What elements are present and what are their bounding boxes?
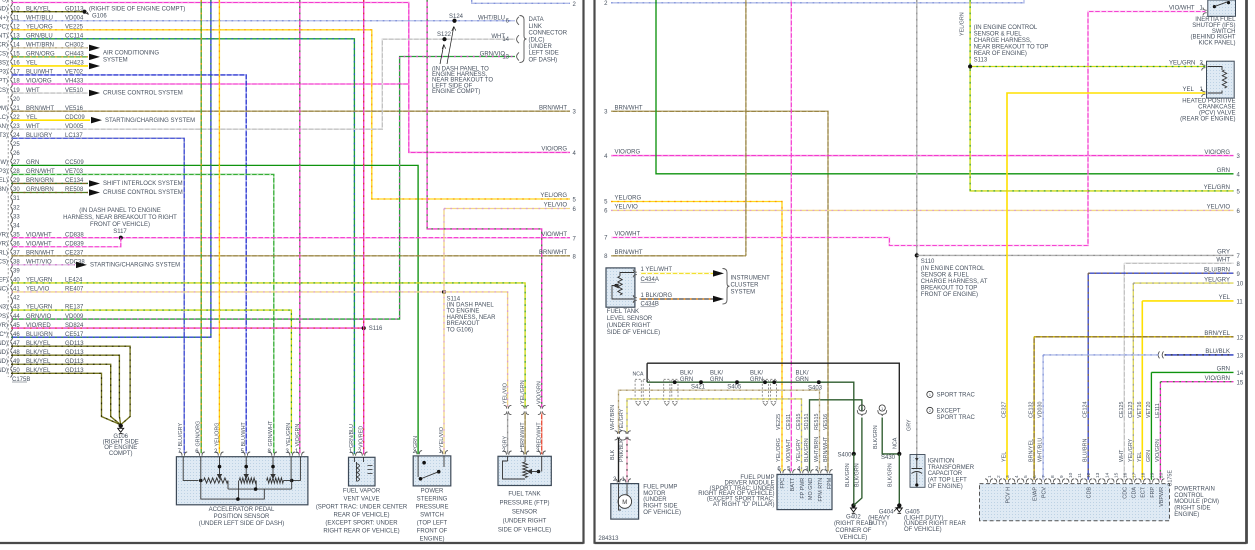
svg-text:(UNDER RIGHT: (UNDER RIGHT xyxy=(607,323,651,329)
svg-text:YEL/GRN: YEL/GRN xyxy=(960,12,966,36)
svg-text:SWITCH: SWITCH xyxy=(420,513,444,519)
svg-text:BLU/BRN: BLU/BRN xyxy=(1083,439,1089,462)
svg-text:SPORT TRAC: SPORT TRAC xyxy=(937,415,976,421)
svg-text:OF VEHICLE): OF VEHICLE) xyxy=(904,527,942,533)
svg-text:(AT TOP LEFT: (AT TOP LEFT xyxy=(928,478,967,484)
svg-text:15: 15 xyxy=(1237,380,1244,386)
svg-text:13: 13 xyxy=(1095,472,1101,478)
svg-text:YEL/GRY: YEL/GRY xyxy=(796,438,802,462)
svg-text:N+): N+) xyxy=(0,15,8,21)
svg-text:FS): FS) xyxy=(0,0,8,3)
svg-text:19: 19 xyxy=(1149,472,1155,478)
svg-text:13: 13 xyxy=(502,54,509,60)
svg-text:11: 11 xyxy=(1237,300,1244,306)
svg-text:ND): ND) xyxy=(0,359,8,365)
svg-text:CLUSTER: CLUSTER xyxy=(731,282,760,288)
svg-text:BATT: BATT xyxy=(790,477,796,491)
svg-text:FUEL VAPOR: FUEL VAPOR xyxy=(343,489,381,495)
svg-text:YEL/ORG: YEL/ORG xyxy=(776,438,782,462)
svg-text:C*): C*) xyxy=(0,332,8,338)
svg-text:VIO/ORG: VIO/ORG xyxy=(541,147,567,153)
svg-text:FRONT OF VEHICLE): FRONT OF VEHICLE) xyxy=(90,222,150,228)
svg-text:NCA: NCA xyxy=(893,437,899,449)
svg-text:GRN: GRN xyxy=(710,377,723,383)
svg-text:12: 12 xyxy=(1237,335,1244,341)
svg-text:MOTOR: MOTOR xyxy=(643,491,666,497)
svg-text:BLK/: BLK/ xyxy=(750,371,763,377)
svg-text:BLK/GRN: BLK/GRN xyxy=(855,463,861,487)
svg-text:1 YEL/WHT: 1 YEL/WHT xyxy=(641,267,673,273)
svg-text:BRN/WHT: BRN/WHT xyxy=(539,250,567,256)
svg-text:GRN: GRN xyxy=(750,377,763,383)
svg-text:VIO/GRN: VIO/GRN xyxy=(537,381,543,404)
svg-text:HARNESS, NEAR: HARNESS, NEAR xyxy=(447,315,497,321)
svg-text:DUTY): DUTY) xyxy=(869,521,887,527)
svg-text:S124: S124 xyxy=(449,14,464,20)
svg-text:YEL/GRN: YEL/GRN xyxy=(520,380,526,404)
svg-text:COMPT): COMPT) xyxy=(109,451,133,457)
svg-text:VR): VR) xyxy=(0,241,8,247)
svg-text:BRN/WHT: BRN/WHT xyxy=(615,105,643,111)
svg-text:CONNECTOR: CONNECTOR xyxy=(529,31,568,37)
svg-text:GRN: GRN xyxy=(1146,450,1152,462)
svg-text:AN): AN) xyxy=(0,124,8,130)
svg-text:YEL: YEL xyxy=(1182,87,1194,93)
svg-text:FRP: FRP xyxy=(1150,487,1156,498)
svg-text:YEL: YEL xyxy=(1219,295,1231,301)
svg-text:BLK/GRN: BLK/GRN xyxy=(873,425,879,449)
svg-text:CS): CS) xyxy=(0,52,8,58)
svg-text:AIR CONDITIONING: AIR CONDITIONING xyxy=(103,51,159,57)
svg-text:GRN: GRN xyxy=(1217,367,1230,373)
svg-text:VE516: VE516 xyxy=(823,414,829,430)
svg-text:EL): EL) xyxy=(0,178,8,184)
svg-text:YEL/VIO: YEL/VIO xyxy=(439,427,445,448)
svg-text:VIO/WHT: VIO/WHT xyxy=(786,438,792,462)
svg-text:P3): P3) xyxy=(0,169,8,175)
svg-text:SENSOR: SENSOR xyxy=(512,509,538,515)
svg-text:YEL: YEL xyxy=(1137,452,1143,462)
svg-text:TO G106): TO G106) xyxy=(447,327,474,333)
svg-text:26: 26 xyxy=(13,151,20,157)
svg-text:(UNDER: (UNDER xyxy=(643,497,667,503)
svg-text:ND): ND) xyxy=(0,6,8,12)
svg-text:SENSOR & FUEL: SENSOR & FUEL xyxy=(921,272,970,278)
svg-text:WHT/BLU: WHT/BLU xyxy=(478,16,505,22)
svg-text:LEFT SIDE: LEFT SIDE xyxy=(529,51,559,57)
svg-text:VR): VR) xyxy=(0,323,8,329)
svg-text:BREAKOUT TO TOP: BREAKOUT TO TOP xyxy=(921,286,977,292)
svg-text:1: 1 xyxy=(929,393,931,397)
svg-text:TO ENGINE: TO ENGINE xyxy=(447,309,480,315)
svg-text:CS): CS) xyxy=(0,260,8,266)
svg-text:13: 13 xyxy=(1237,354,1244,360)
svg-text:EVAP: EVAP xyxy=(1033,487,1039,501)
svg-text:CAPACITOR: CAPACITOR xyxy=(928,471,963,477)
svg-text:PRESSURE (FTP): PRESSURE (FTP) xyxy=(499,500,549,506)
svg-text:20: 20 xyxy=(13,97,20,103)
svg-text:4: 4 xyxy=(1014,475,1020,478)
svg-text:(IN DASH PANEL: (IN DASH PANEL xyxy=(447,303,495,309)
svg-text:VIO/GRN: VIO/GRN xyxy=(295,424,301,447)
svg-text:VBPWR: VBPWR xyxy=(1159,487,1165,507)
svg-text:CONTROL: CONTROL xyxy=(1174,493,1204,499)
svg-text:ECT: ECT xyxy=(1141,486,1147,497)
svg-text:WHT/BRN: WHT/BRN xyxy=(610,405,616,430)
svg-text:EF): EF) xyxy=(0,278,8,284)
svg-text:GRN/BLU: GRN/BLU xyxy=(349,424,355,448)
svg-text:CDC: CDC xyxy=(1123,487,1129,499)
svg-text:BRN/WHT: BRN/WHT xyxy=(539,105,567,111)
svg-text:BREAKOUT: BREAKOUT xyxy=(447,321,480,327)
svg-text:P3): P3) xyxy=(0,70,8,76)
svg-text:EXCEPT: EXCEPT xyxy=(937,408,961,414)
svg-text:S117: S117 xyxy=(113,229,127,235)
svg-text:31: 31 xyxy=(13,196,20,202)
svg-text:CDA: CDA xyxy=(1132,487,1138,499)
svg-text:ND): ND) xyxy=(0,368,8,374)
svg-text:YEL/ORG: YEL/ORG xyxy=(615,196,642,202)
svg-text:S116: S116 xyxy=(369,326,383,332)
svg-text:YEL/GRY: YEL/GRY xyxy=(1204,277,1230,283)
svg-text:BLK/GRN: BLK/GRN xyxy=(888,463,894,487)
svg-text:(DLC): (DLC) xyxy=(529,37,545,43)
svg-text:GW): GW) xyxy=(0,160,8,166)
svg-text:AT RIGHT “D” PILLAR): AT RIGHT “D” PILLAR) xyxy=(713,502,775,508)
svg-text:VR): VR) xyxy=(0,232,8,238)
svg-text:34: 34 xyxy=(13,223,20,229)
svg-text:GRY: GRY xyxy=(1217,250,1230,256)
svg-text:YEL/GRY: YEL/GRY xyxy=(619,408,625,432)
svg-text:VD030: VD030 xyxy=(1038,402,1044,418)
svg-text:PCV: PCV xyxy=(1042,487,1048,498)
svg-text:S430: S430 xyxy=(881,455,896,461)
svg-text:WHT: WHT xyxy=(1119,449,1125,462)
svg-text:18: 18 xyxy=(1140,472,1146,478)
svg-text:BLK/GRN: BLK/GRN xyxy=(804,438,810,462)
svg-text:FRONT OF ENGINE): FRONT OF ENGINE) xyxy=(921,292,978,298)
svg-text:ENGINE): ENGINE) xyxy=(419,537,444,543)
svg-text:1: 1 xyxy=(987,475,993,478)
svg-text:VIO/WHT: VIO/WHT xyxy=(1169,6,1195,12)
svg-text:VEHICLE): VEHICLE) xyxy=(840,535,868,541)
svg-text:HARNESS, NEAR BREAKOUT TO RIGH: HARNESS, NEAR BREAKOUT TO RIGHT xyxy=(63,215,177,221)
svg-text:CE327: CE327 xyxy=(1002,402,1008,418)
svg-text:YEL: YEL xyxy=(1002,452,1008,462)
svg-text:PRESSURE: PRESSURE xyxy=(415,505,448,511)
svg-text:SHIFT INTERLOCK SYSTEM: SHIFT INTERLOCK SYSTEM xyxy=(103,181,183,187)
svg-text:VET20: VET20 xyxy=(1146,402,1152,418)
svg-text:BLK/: BLK/ xyxy=(680,371,693,377)
svg-text:3N): 3N) xyxy=(0,187,8,193)
svg-text:SIDE OF VEHICLE): SIDE OF VEHICLE) xyxy=(607,330,660,336)
svg-text:BLU/GRY: BLU/GRY xyxy=(178,423,184,447)
svg-text:12: 12 xyxy=(1086,472,1092,478)
svg-text:FUEL TANK: FUEL TANK xyxy=(508,491,540,497)
svg-text:GRN/WHT: GRN/WHT xyxy=(268,420,274,446)
svg-text:VE225: VE225 xyxy=(776,414,782,430)
svg-text:(UNDER RIGHT: (UNDER RIGHT xyxy=(503,518,547,524)
svg-text:YEL/VIO: YEL/VIO xyxy=(544,203,568,209)
svg-text:SENSOR & FUEL: SENSOR & FUEL xyxy=(974,32,1023,38)
svg-text:14: 14 xyxy=(1237,371,1244,377)
svg-text:RE515: RE515 xyxy=(814,414,820,430)
svg-text:14: 14 xyxy=(502,37,509,43)
svg-text:YEL/VIO: YEL/VIO xyxy=(502,383,508,404)
svg-text:(EXCEPT SPORT: UNDER: (EXCEPT SPORT: UNDER xyxy=(325,521,398,527)
svg-text:VIO/RED: VIO/RED xyxy=(358,426,364,448)
svg-text:LINK: LINK xyxy=(529,24,542,30)
svg-text:1: 1 xyxy=(881,407,883,411)
svg-text:POSITION SENSOR: POSITION SENSOR xyxy=(214,514,270,520)
svg-text:S122: S122 xyxy=(437,32,452,38)
svg-text:PM): PM) xyxy=(0,106,8,112)
svg-text:RIGHT REAR OF VEHICLE): RIGHT REAR OF VEHICLE) xyxy=(323,529,399,535)
svg-text:S110: S110 xyxy=(921,259,935,265)
svg-text:(IN DASH PANEL TO ENGINE: (IN DASH PANEL TO ENGINE xyxy=(79,208,160,214)
svg-text:ACCELERATOR PEDAL: ACCELERATOR PEDAL xyxy=(209,507,275,513)
svg-text:GRY: GRY xyxy=(907,419,913,431)
svg-text:YEL/VIO: YEL/VIO xyxy=(1207,205,1231,211)
svg-text:BLK/: BLK/ xyxy=(795,371,808,377)
svg-text:BRN/YEL: BRN/YEL xyxy=(1029,439,1035,462)
svg-text:BRN/WHT: BRN/WHT xyxy=(823,436,829,462)
svg-text:G402: G402 xyxy=(846,514,861,520)
svg-text:(RIGHT REAR: (RIGHT REAR xyxy=(834,521,874,527)
svg-text:PNK/BLK: PNK/BLK xyxy=(619,439,625,462)
svg-text:PS): PS) xyxy=(0,314,8,320)
svg-text:STARTING/CHARGING SYSTEM: STARTING/CHARGING SYSTEM xyxy=(90,262,180,268)
svg-text:G106: G106 xyxy=(92,14,107,20)
svg-text:GRN: GRN xyxy=(680,377,693,383)
svg-text:CE915: CE915 xyxy=(796,414,802,430)
svg-text:CS): CS) xyxy=(0,88,8,94)
svg-text:SIDE OF VEHICLE): SIDE OF VEHICLE) xyxy=(498,527,551,533)
svg-text:STEERING: STEERING xyxy=(417,497,448,503)
svg-text:20: 20 xyxy=(1158,472,1164,478)
svg-text:YEL/GRN: YEL/GRN xyxy=(1204,185,1230,191)
svg-text:S400: S400 xyxy=(837,453,852,459)
svg-text:KICK PANEL): KICK PANEL) xyxy=(1199,41,1236,47)
svg-text:YEL/VIO: YEL/VIO xyxy=(615,204,639,210)
svg-text:BLU/WHT: BLU/WHT xyxy=(241,422,247,447)
svg-text:CE911: CE911 xyxy=(786,414,792,430)
svg-text:(REAR OF ENGINE): (REAR OF ENGINE) xyxy=(1180,116,1235,122)
svg-text:WHT/BRN: WHT/BRN xyxy=(814,437,820,462)
svg-text:NEAR BREAKOUT TO TOP: NEAR BREAKOUT TO TOP xyxy=(974,45,1049,51)
svg-text:VENT VALVE: VENT VALVE xyxy=(343,497,379,503)
svg-text:FP PWR: FP PWR xyxy=(800,478,806,499)
svg-text:GRN/ORG: GRN/ORG xyxy=(196,421,202,447)
svg-text:YEL/GRY: YEL/GRY xyxy=(1128,438,1134,462)
svg-text:CRUISE CONTROL SYSTEM: CRUISE CONTROL SYSTEM xyxy=(103,190,183,196)
svg-text:LE111: LE111 xyxy=(1155,403,1161,418)
svg-text:BLU/BLK: BLU/BLK xyxy=(1205,349,1230,355)
svg-text:BLK: BLK xyxy=(610,449,616,460)
svg-text:16: 16 xyxy=(1122,472,1128,478)
svg-text:YEL/GRN: YEL/GRN xyxy=(1169,60,1195,66)
svg-text:FPM: FPM xyxy=(827,477,833,489)
svg-text:CE132: CE132 xyxy=(1029,402,1035,418)
svg-text:SD151: SD151 xyxy=(804,414,810,430)
svg-text:CE124: CE124 xyxy=(1083,402,1089,418)
svg-text:ND): ND) xyxy=(0,350,8,356)
svg-text:(UNDER LEFT SIDE OF DASH): (UNDER LEFT SIDE OF DASH) xyxy=(199,521,285,527)
svg-text:GRN: GRN xyxy=(795,377,808,383)
svg-text:RIGHT SIDE: RIGHT SIDE xyxy=(643,504,677,510)
svg-text:2: 2 xyxy=(861,407,863,411)
svg-text:BRN/WHT: BRN/WHT xyxy=(615,250,643,256)
svg-text:YEL/ORG: YEL/ORG xyxy=(214,423,220,447)
svg-text:10: 10 xyxy=(1237,282,1244,288)
svg-text:14: 14 xyxy=(1104,472,1110,478)
svg-text:BRN/YEL: BRN/YEL xyxy=(1204,331,1230,337)
svg-text:ND): ND) xyxy=(0,341,8,347)
svg-text:OF ENGINE): OF ENGINE) xyxy=(928,484,963,490)
svg-text:FRONT OF: FRONT OF xyxy=(417,529,448,535)
svg-text:N3): N3) xyxy=(0,305,8,311)
svg-text:PC): PC) xyxy=(0,24,8,30)
svg-text:PT): PT) xyxy=(0,79,8,85)
svg-text:C175E: C175E xyxy=(1168,470,1174,487)
svg-text:RL): RL) xyxy=(0,250,8,256)
svg-text:M: M xyxy=(622,500,627,506)
svg-text:284313: 284313 xyxy=(598,536,619,542)
svg-text:YEL/GRN: YEL/GRN xyxy=(286,423,292,447)
svg-text:VET16: VET16 xyxy=(1137,402,1143,418)
svg-text:GRN: GRN xyxy=(1217,168,1230,174)
svg-text:VIO/GRN: VIO/GRN xyxy=(1155,439,1161,462)
svg-text:YEL/ORG: YEL/ORG xyxy=(540,193,567,199)
svg-text:SPORT TRAC: SPORT TRAC xyxy=(937,392,976,398)
svg-text:CE123: CE123 xyxy=(1128,402,1134,418)
svg-text:LC): LC) xyxy=(0,115,8,121)
svg-text:IGNITION: IGNITION xyxy=(928,458,955,464)
svg-text:17: 17 xyxy=(1131,472,1137,478)
svg-text:REAR OF ENGINE): REAR OF ENGINE) xyxy=(974,51,1027,57)
svg-text:(TOP LEFT: (TOP LEFT xyxy=(417,521,448,527)
svg-text:INSTRUMENT: INSTRUMENT xyxy=(731,275,771,281)
svg-text:5: 5 xyxy=(1023,475,1029,478)
svg-text:39: 39 xyxy=(13,269,20,275)
svg-text:(IN ENGINE CONTROL: (IN ENGINE CONTROL xyxy=(974,25,1038,31)
svg-text:OF DASH): OF DASH) xyxy=(529,57,558,63)
svg-text:CE125: CE125 xyxy=(1119,402,1125,418)
svg-text:VIO/WHT: VIO/WHT xyxy=(541,232,567,238)
svg-text:SYSTEM: SYSTEM xyxy=(731,289,756,295)
svg-text:10: 10 xyxy=(1068,472,1074,478)
svg-text:(UNDER: (UNDER xyxy=(529,44,553,50)
svg-text:CRUISE CONTROL SYSTEM: CRUISE CONTROL SYSTEM xyxy=(103,91,183,97)
svg-text:7: 7 xyxy=(1041,475,1047,478)
svg-text:WHT/BLU: WHT/BLU xyxy=(1038,438,1044,462)
svg-text:CHARGE HARNESS,: CHARGE HARNESS, xyxy=(974,38,1032,44)
svg-text:DATA: DATA xyxy=(529,17,544,23)
svg-text:PCV H: PCV H xyxy=(1005,487,1011,504)
svg-text:(SPORT TRAC: UNDER CENTER: (SPORT TRAC: UNDER CENTER xyxy=(316,505,408,511)
svg-text:S113: S113 xyxy=(974,58,988,64)
svg-text:NCA: NCA xyxy=(633,372,644,378)
svg-text:CORNER OF: CORNER OF xyxy=(835,528,871,534)
svg-text:(RIGHT SIDE: (RIGHT SIDE xyxy=(1174,506,1210,512)
svg-text:NT): NT) xyxy=(0,34,8,40)
svg-text:SYSTEM: SYSTEM xyxy=(103,58,128,64)
svg-text:STARTING/CHARGING SYSTEM: STARTING/CHARGING SYSTEM xyxy=(105,118,195,124)
svg-text:FPM RTN: FPM RTN xyxy=(818,478,824,502)
svg-text:3: 3 xyxy=(1005,475,1011,478)
svg-text:S114: S114 xyxy=(447,296,461,302)
svg-text:POWER: POWER xyxy=(421,489,444,495)
svg-text:ENGINE): ENGINE) xyxy=(1174,512,1199,518)
svg-text:CDB: CDB xyxy=(1087,487,1093,499)
svg-text:8: 8 xyxy=(1050,475,1056,478)
svg-text:15: 15 xyxy=(1113,472,1119,478)
svg-text:(IN ENGINE CONTROL: (IN ENGINE CONTROL xyxy=(921,266,985,272)
svg-text:VIO/ORG: VIO/ORG xyxy=(1204,150,1230,156)
svg-text:FUEL TANK: FUEL TANK xyxy=(607,309,639,315)
svg-text:6: 6 xyxy=(1032,475,1038,478)
svg-text:FPC: FPC xyxy=(780,478,786,489)
svg-text:OF VEHICLE): OF VEHICLE) xyxy=(643,510,681,516)
svg-text:BLU/BRN: BLU/BRN xyxy=(1204,267,1230,273)
svg-text:42: 42 xyxy=(13,296,20,302)
svg-text:REAR OF VEHICLE): REAR OF VEHICLE) xyxy=(333,513,389,519)
svg-text:WHT: WHT xyxy=(1216,258,1230,264)
svg-text:ENGINE COMPT): ENGINE COMPT) xyxy=(432,89,480,95)
svg-text:FUEL PUMP: FUEL PUMP xyxy=(643,485,677,491)
svg-text:NC): NC) xyxy=(0,287,8,293)
svg-text:LEVEL SENSOR: LEVEL SENSOR xyxy=(607,316,653,322)
svg-text:MO GND: MO GND xyxy=(808,478,814,500)
svg-text:CHARGE HARNESS, AT: CHARGE HARNESS, AT xyxy=(921,279,988,285)
svg-text:25: 25 xyxy=(13,142,20,148)
svg-text:TRANSFORMER: TRANSFORMER xyxy=(928,465,975,471)
svg-text:CR): CR) xyxy=(0,43,8,49)
svg-text:2: 2 xyxy=(996,475,1002,478)
svg-text:33: 33 xyxy=(13,214,20,220)
svg-text:BLK/GRN: BLK/GRN xyxy=(845,463,851,487)
svg-text:(RIGHT SIDE OF ENGINE COMPT): (RIGHT SIDE OF ENGINE COMPT) xyxy=(89,7,185,13)
svg-text:2: 2 xyxy=(929,409,931,413)
svg-text:11: 11 xyxy=(1077,473,1083,478)
svg-text:32: 32 xyxy=(13,205,20,211)
svg-text:VIO/ORG: VIO/ORG xyxy=(615,150,641,156)
svg-text:9: 9 xyxy=(1059,475,1065,478)
svg-text:POWERTRAIN: POWERTRAIN xyxy=(1174,487,1215,493)
svg-text:1 BLK/ORG: 1 BLK/ORG xyxy=(641,293,673,299)
svg-text:VIO/GRN: VIO/GRN xyxy=(1205,376,1230,382)
svg-text:T3): T3) xyxy=(0,133,8,139)
svg-text:BS): BS) xyxy=(0,61,8,67)
svg-text:MODULE (PCM): MODULE (PCM) xyxy=(1174,499,1219,505)
svg-text:BLK/: BLK/ xyxy=(710,371,723,377)
svg-text:VIO/WHT: VIO/WHT xyxy=(615,232,641,238)
svg-text:GRN: GRN xyxy=(413,436,419,448)
